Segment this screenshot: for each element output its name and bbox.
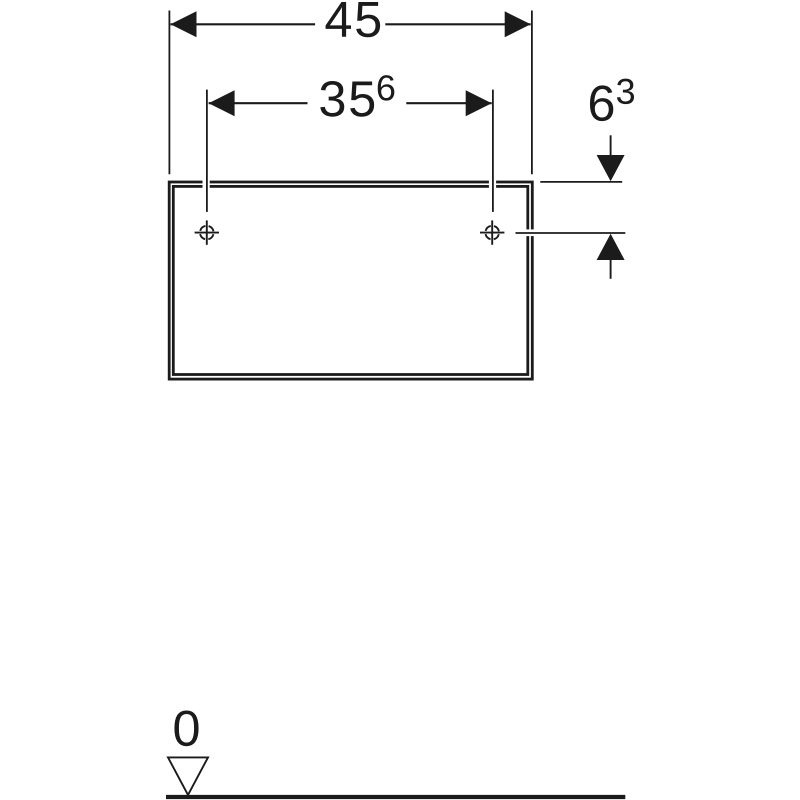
dimension 6.3: upper tick line at cabinet top level bbox=[540, 181, 622, 183]
white break in cabinet top border at right hole extension line bbox=[489, 179, 496, 191]
dimension 6.3: upper leader line bbox=[610, 135, 612, 156]
zero level marker triangle bbox=[168, 757, 208, 795]
dimension 35.6: dimension line left segment bbox=[209, 102, 308, 104]
dimension 45: left extension line bbox=[168, 11, 170, 175]
dimension 35.6: dimension line right segment bbox=[406, 102, 491, 104]
dimension 6.3: value label superscript bbox=[617, 79, 634, 104]
floor line bbox=[166, 795, 625, 799]
dimension 35.6: right extension line bbox=[492, 90, 494, 212]
dimension 45: dimension line right segment bbox=[385, 23, 530, 25]
dimension 6.3: value label main bbox=[590, 85, 613, 121]
dimension 35.6: right arrowhead bbox=[466, 90, 492, 116]
dimension 35.6: left extension line bbox=[206, 90, 208, 212]
dimension 6.3: up arrowhead bbox=[597, 234, 625, 260]
dimension 45: right extension line bbox=[531, 11, 533, 175]
dimension 45: right arrowhead bbox=[505, 11, 531, 37]
dimension 35.6: value label superscript bbox=[378, 75, 395, 100]
dimension 45: value label bbox=[326, 2, 381, 37]
dimension 45: left arrowhead bbox=[171, 11, 197, 37]
cabinet inner outline bbox=[173, 186, 528, 374]
white break in cabinet right wall at hole level line bbox=[525, 229, 536, 236]
cabinet outer outline bbox=[169, 182, 532, 379]
zero level label bbox=[174, 710, 198, 746]
right mounting hole crosshair bbox=[480, 220, 504, 244]
white break in cabinet top border at left hole extension line bbox=[203, 179, 210, 191]
dimension 6.3: lower leader line bbox=[610, 260, 612, 279]
dimension 35.6: value label main bbox=[320, 81, 374, 117]
dimension 6.3: lower tick line at hole level bbox=[516, 232, 626, 234]
left mounting hole crosshair bbox=[195, 220, 219, 244]
dimension 6.3: down arrowhead bbox=[597, 155, 625, 181]
dimension 45: dimension line left segment bbox=[171, 23, 316, 25]
dimension 35.6: left arrowhead bbox=[209, 90, 235, 116]
